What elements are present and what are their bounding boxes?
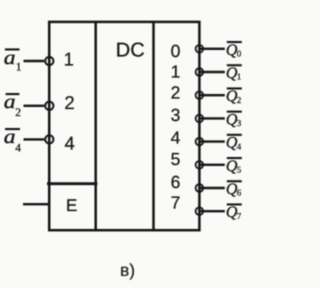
- svg-text:2: 2: [15, 107, 21, 119]
- svg-text:4: 4: [15, 143, 21, 155]
- svg-text:5: 5: [171, 149, 181, 169]
- svg-text:E: E: [66, 196, 77, 215]
- svg-text:5: 5: [237, 165, 242, 175]
- svg-text:4: 4: [171, 127, 181, 147]
- svg-text:DC: DC: [116, 39, 145, 61]
- svg-text:в): в): [120, 260, 135, 280]
- svg-text:2: 2: [237, 95, 242, 105]
- svg-text:6: 6: [171, 172, 181, 192]
- svg-text:a: a: [4, 91, 16, 113]
- svg-text:4: 4: [65, 132, 75, 153]
- svg-text:6: 6: [237, 188, 242, 198]
- svg-text:7: 7: [237, 211, 242, 221]
- svg-text:0: 0: [171, 41, 181, 61]
- svg-text:3: 3: [171, 105, 181, 125]
- svg-text:a: a: [4, 126, 16, 148]
- svg-text:1: 1: [171, 61, 181, 81]
- svg-text:1: 1: [16, 61, 22, 73]
- svg-text:4: 4: [237, 141, 242, 151]
- svg-text:2: 2: [64, 92, 74, 113]
- svg-text:1: 1: [64, 49, 74, 70]
- svg-text:7: 7: [171, 193, 181, 213]
- svg-text:2: 2: [171, 83, 181, 103]
- svg-text:a: a: [4, 47, 16, 69]
- svg-text:0: 0: [237, 49, 242, 59]
- svg-text:1: 1: [237, 72, 242, 82]
- svg-text:3: 3: [237, 118, 242, 128]
